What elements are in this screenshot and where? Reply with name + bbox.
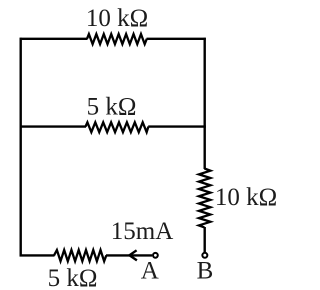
svg-text:10 kΩ: 10 kΩ [86, 5, 148, 32]
wire middle-left segment [20, 125, 86, 127]
svg-text:5 kΩ: 5 kΩ [48, 265, 98, 290]
resistor R2 5k (middle) [86, 122, 149, 132]
wire middle-right segment [148, 125, 206, 127]
svg-text:10 kΩ: 10 kΩ [215, 184, 277, 211]
wire right vertical lower [203, 227, 205, 252]
current direction arrow (15mA) [129, 250, 137, 260]
wire left vertical [20, 38, 22, 257]
svg-text:B: B [197, 258, 214, 285]
terminal A [153, 253, 158, 258]
resistor R4 5k (bottom) [54, 250, 106, 261]
wire top-right segment [147, 38, 206, 40]
wire top-left segment [20, 38, 88, 40]
wire bottom-right segment [106, 254, 152, 256]
resistor R3 10k (right vertical) [199, 169, 211, 228]
wire bottom-left segment [20, 254, 55, 256]
svg-text:5 kΩ: 5 kΩ [87, 94, 137, 121]
wire right vertical upper [203, 38, 205, 169]
svg-text:A: A [141, 258, 159, 285]
svg-text:15mA: 15mA [111, 218, 174, 245]
terminal B [202, 253, 207, 258]
resistor R1 10k (top) [87, 34, 147, 44]
